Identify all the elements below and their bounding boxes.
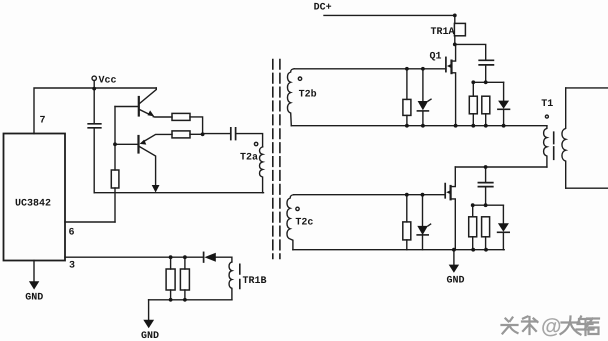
svg-text:T2b: T2b xyxy=(299,89,317,101)
svg-text:3: 3 xyxy=(69,261,75,272)
svg-text:TR1A: TR1A xyxy=(431,27,455,38)
svg-text:Vcc: Vcc xyxy=(99,76,117,87)
svg-text:GND: GND xyxy=(447,276,465,287)
svg-text:6: 6 xyxy=(69,228,75,239)
svg-text:@: @ xyxy=(541,315,561,338)
svg-text:GND: GND xyxy=(25,293,43,304)
svg-text:DC+: DC+ xyxy=(314,3,332,14)
svg-text:T2a: T2a xyxy=(240,152,258,163)
svg-text:Q1: Q1 xyxy=(430,51,442,62)
svg-text:T1: T1 xyxy=(541,99,553,110)
svg-text:7: 7 xyxy=(40,116,46,127)
svg-text:GND: GND xyxy=(141,331,159,341)
svg-text:T2c: T2c xyxy=(295,218,313,229)
svg-text:UC3842: UC3842 xyxy=(15,199,51,210)
svg-text:TR1B: TR1B xyxy=(243,276,267,287)
